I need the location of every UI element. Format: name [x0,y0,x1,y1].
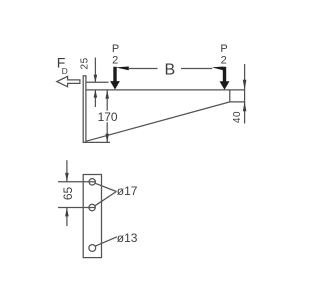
svg-text:2: 2 [112,55,118,67]
leader hole top to ø17 [95,183,116,191]
svg-text:P: P [220,43,227,55]
bottom edge line [83,141,110,143]
extension line hole top [58,181,95,183]
dim 65 arrow down [65,173,69,182]
svg-text:25: 25 [80,57,91,69]
dim 170 line [106,90,108,142]
dim 40 arrow down [243,80,247,90]
load arrow P/2 left [110,67,120,90]
dim 25 line upper [94,58,96,108]
dim 25 arrow up [94,90,98,98]
lower view: anchor plate front [83,175,101,258]
leader hole middle to ø17 [95,192,117,206]
svg-text:2: 2 [221,55,227,67]
top chord line [86,89,245,91]
dim 65 line [66,160,68,226]
dim B arrow right [212,67,223,71]
dim 170 arrow up [105,90,109,98]
sloped bottom line [86,102,230,141]
svg-text:ø17: ø17 [117,184,138,198]
svg-text:65: 65 [61,187,75,201]
leader hole bottom to ø13 [95,237,117,246]
wall plate side view [83,76,86,143]
dim 65 arrow up [65,208,69,217]
hole top (ø17) [89,179,95,185]
dim 25 arrow down [94,75,98,83]
dim 40 arrow up [243,102,247,111]
svg-text:D: D [62,66,68,76]
dim 170 arrow down [105,134,109,143]
dim B arrow left [116,67,129,71]
tip end box [230,90,245,102]
svg-text:170: 170 [98,110,118,124]
hole middle (ø17) [89,204,95,210]
svg-text:40: 40 [232,111,243,123]
extension line hole middle [58,207,95,209]
dim 40 line [244,64,246,124]
svg-text:ø13: ø13 [117,231,138,245]
svg-text:B: B [164,62,175,79]
svg-text:P: P [112,43,119,55]
force arrow F (hollow, pointing left) [57,76,80,86]
hole bottom (ø13) [89,245,96,252]
dim B line left segment [129,68,158,70]
load arrow P/2 right [220,67,230,90]
upper flange line [86,81,109,83]
dim B line right segment [181,68,212,70]
